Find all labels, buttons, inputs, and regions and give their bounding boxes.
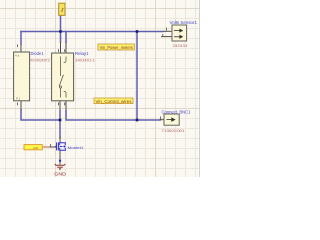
svg-text:4a: 4a [15,54,19,58]
svg-text:Connect_BNC1: Connect_BNC1 [162,110,192,115]
svg-text:GND: GND [54,171,66,176]
svg-text:242431: 242431 [173,43,188,48]
svg-text:Vin_Control_wires: Vin_Control_wires [96,99,132,104]
svg-text:Mosfet1: Mosfet1 [68,145,85,150]
svg-text:RK1VWS2403T12: RK1VWS2403T12 [31,57,51,62]
svg-text:Diode1: Diode1 [31,51,45,56]
svg-text:71300C001: 71300C001 [162,128,185,133]
svg-text:Relay1: Relay1 [75,51,89,56]
svg-text:Vin_Power_meters: Vin_Power_meters [100,45,133,50]
svg-text:P1: P1 [16,96,20,100]
svg-text:1401491-1: 1401491-1 [75,57,95,62]
svg-text:Volts Sensor1: Volts Sensor1 [170,20,198,25]
svg-text:x2: x2 [33,146,39,150]
